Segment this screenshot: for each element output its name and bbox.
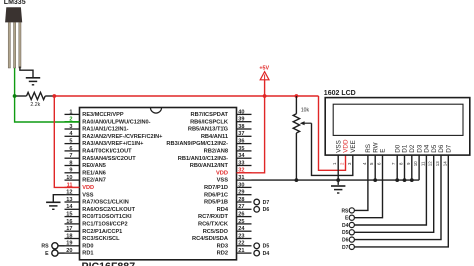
svg-text:8: 8 bbox=[69, 160, 72, 166]
svg-text:+5V: +5V bbox=[259, 66, 269, 72]
svg-text:RA3/AN3/VREF+/C1IN+: RA3/AN3/VREF+/C1IN+ bbox=[82, 141, 144, 147]
svg-text:VDD: VDD bbox=[216, 170, 228, 176]
svg-text:39: 39 bbox=[238, 117, 244, 123]
svg-text:RC6/TX/CK: RC6/TX/CK bbox=[198, 222, 229, 228]
svg-text:1602 LCD: 1602 LCD bbox=[324, 90, 356, 97]
svg-text:RB7/ICSPDAT: RB7/ICSPDAT bbox=[191, 112, 229, 118]
svg-text:28: 28 bbox=[238, 197, 244, 203]
svg-text:VSS: VSS bbox=[217, 178, 229, 184]
svg-text:D6: D6 bbox=[438, 144, 445, 153]
svg-text:12: 12 bbox=[66, 190, 72, 196]
svg-text:36: 36 bbox=[238, 139, 244, 145]
svg-text:14: 14 bbox=[66, 204, 73, 210]
svg-text:RD1: RD1 bbox=[82, 251, 93, 257]
svg-text:D6: D6 bbox=[263, 207, 270, 213]
svg-text:D4: D4 bbox=[342, 223, 349, 229]
svg-text:13: 13 bbox=[435, 161, 440, 166]
svg-text:1: 1 bbox=[69, 109, 72, 115]
svg-text:RB3/AN9/PGM/C12IN2-: RB3/AN9/PGM/C12IN2- bbox=[166, 141, 228, 147]
svg-text:RS: RS bbox=[365, 144, 372, 153]
svg-text:RB0/AN12/INT: RB0/AN12/INT bbox=[190, 163, 229, 169]
svg-text:27: 27 bbox=[238, 204, 244, 210]
svg-text:D7: D7 bbox=[446, 144, 453, 153]
svg-text:PIC16F887: PIC16F887 bbox=[82, 261, 136, 266]
svg-text:19: 19 bbox=[66, 241, 72, 247]
svg-text:9: 9 bbox=[69, 168, 72, 174]
svg-text:31: 31 bbox=[238, 175, 244, 181]
svg-text:22: 22 bbox=[238, 241, 244, 247]
svg-text:D5: D5 bbox=[263, 244, 270, 250]
svg-text:20: 20 bbox=[66, 248, 72, 254]
svg-text:D6: D6 bbox=[342, 238, 349, 244]
svg-text:D5: D5 bbox=[431, 144, 438, 153]
svg-text:D4: D4 bbox=[424, 144, 431, 153]
svg-text:VSS: VSS bbox=[82, 192, 93, 198]
svg-text:RC2/P1A/CCP1: RC2/P1A/CCP1 bbox=[82, 229, 122, 235]
svg-text:D5: D5 bbox=[342, 230, 349, 236]
svg-text:D2: D2 bbox=[409, 144, 416, 153]
svg-text:21: 21 bbox=[238, 248, 244, 254]
svg-text:D0: D0 bbox=[394, 144, 401, 153]
svg-text:11: 11 bbox=[67, 182, 73, 188]
svg-text:RE0/AN5: RE0/AN5 bbox=[82, 163, 106, 169]
svg-text:38: 38 bbox=[238, 124, 244, 130]
svg-text:RA5/AN4/SS/C2OUT: RA5/AN4/SS/C2OUT bbox=[82, 156, 136, 162]
svg-text:2: 2 bbox=[69, 117, 72, 123]
svg-text:RA2/AN2/VREF-/CVREF/C2IN+: RA2/AN2/VREF-/CVREF/C2IN+ bbox=[82, 134, 163, 140]
svg-text:RC3/SCK/SCL: RC3/SCK/SCL bbox=[82, 236, 120, 242]
svg-text:VEE: VEE bbox=[350, 140, 357, 153]
svg-text:D3: D3 bbox=[416, 144, 423, 153]
svg-text:15: 15 bbox=[66, 212, 72, 218]
svg-text:29: 29 bbox=[238, 190, 244, 196]
svg-text:10k: 10k bbox=[301, 108, 310, 114]
svg-text:34: 34 bbox=[238, 153, 245, 159]
svg-text:40: 40 bbox=[238, 109, 244, 115]
svg-text:RC0/T1OSO/T1CKI: RC0/T1OSO/T1CKI bbox=[82, 214, 132, 220]
svg-text:D7: D7 bbox=[263, 200, 270, 206]
svg-text:30: 30 bbox=[238, 182, 244, 188]
svg-text:RW: RW bbox=[372, 142, 379, 152]
svg-text:12: 12 bbox=[428, 161, 433, 166]
svg-text:37: 37 bbox=[238, 131, 244, 137]
svg-text:RD6/P1C: RD6/P1C bbox=[204, 192, 228, 198]
svg-text:VDD: VDD bbox=[82, 185, 94, 191]
svg-text:7: 7 bbox=[69, 153, 72, 159]
svg-text:13: 13 bbox=[66, 197, 72, 203]
svg-text:23: 23 bbox=[238, 233, 244, 239]
svg-text:RS: RS bbox=[41, 244, 49, 250]
svg-text:RD4: RD4 bbox=[217, 207, 229, 213]
svg-text:RD7/P1D: RD7/P1D bbox=[204, 185, 228, 191]
svg-text:24: 24 bbox=[238, 226, 245, 232]
svg-text:16: 16 bbox=[66, 219, 72, 225]
svg-text:17: 17 bbox=[66, 226, 72, 232]
svg-text:VSS: VSS bbox=[335, 140, 342, 153]
svg-text:14: 14 bbox=[442, 161, 447, 166]
svg-text:RD3: RD3 bbox=[217, 243, 228, 249]
svg-text:RC5/SDO: RC5/SDO bbox=[203, 229, 229, 235]
svg-text:E: E bbox=[45, 251, 49, 257]
svg-text:RA6/OSC2/CLKOUT: RA6/OSC2/CLKOUT bbox=[82, 207, 135, 213]
svg-text:RA4/T0CKI/C1OUT: RA4/T0CKI/C1OUT bbox=[82, 149, 132, 155]
svg-text:RB6/ICSPCLK: RB6/ICSPCLK bbox=[190, 119, 229, 125]
svg-text:5: 5 bbox=[69, 139, 72, 145]
svg-text:RC7/RX/DT: RC7/RX/DT bbox=[198, 214, 229, 220]
svg-text:11: 11 bbox=[420, 161, 425, 166]
svg-text:RA0/AN0/ULPWU/C12IN0-: RA0/AN0/ULPWU/C12IN0- bbox=[82, 119, 150, 125]
svg-text:32: 32 bbox=[238, 168, 244, 174]
svg-text:10: 10 bbox=[413, 161, 418, 166]
svg-text:E: E bbox=[380, 149, 387, 153]
svg-text:RS: RS bbox=[341, 208, 349, 214]
svg-text:D7: D7 bbox=[342, 245, 349, 251]
svg-text:RA7/OSC1/CLKIN: RA7/OSC1/CLKIN bbox=[82, 200, 129, 206]
svg-text:2.2k: 2.2k bbox=[30, 102, 40, 108]
svg-text:VDD: VDD bbox=[343, 139, 350, 153]
svg-text:RC4/SDI/SDA: RC4/SDI/SDA bbox=[192, 236, 228, 242]
svg-text:LM335: LM335 bbox=[4, 0, 26, 6]
svg-text:RE2/AN7: RE2/AN7 bbox=[82, 178, 106, 184]
svg-text:RD2: RD2 bbox=[217, 251, 228, 257]
svg-text:6: 6 bbox=[69, 146, 72, 152]
svg-text:18: 18 bbox=[66, 233, 72, 239]
svg-text:RB5/AN13/T1G: RB5/AN13/T1G bbox=[188, 127, 229, 133]
svg-text:RB1/AN10/C12IN3-: RB1/AN10/C12IN3- bbox=[178, 156, 228, 162]
svg-text:D1: D1 bbox=[402, 144, 409, 153]
svg-text:RC1/T1OSI/CCP2: RC1/T1OSI/CCP2 bbox=[82, 222, 127, 228]
svg-text:RE1/AN6: RE1/AN6 bbox=[82, 170, 106, 176]
svg-text:25: 25 bbox=[238, 219, 244, 225]
svg-text:RB2/AN8: RB2/AN8 bbox=[204, 149, 228, 155]
svg-text:RA1/AN1/C12IN1-: RA1/AN1/C12IN1- bbox=[82, 127, 128, 133]
svg-text:RE3/MCLR/VPP: RE3/MCLR/VPP bbox=[82, 112, 124, 118]
svg-text:D4: D4 bbox=[263, 251, 270, 257]
svg-text:RD0: RD0 bbox=[82, 243, 93, 249]
svg-text:RB4/AN11: RB4/AN11 bbox=[201, 134, 228, 140]
svg-text:35: 35 bbox=[238, 146, 244, 152]
svg-text:RD5/P1B: RD5/P1B bbox=[204, 200, 228, 206]
svg-text:26: 26 bbox=[238, 212, 244, 218]
svg-text:33: 33 bbox=[238, 160, 244, 166]
svg-text:10: 10 bbox=[66, 175, 72, 181]
svg-text:3: 3 bbox=[69, 124, 72, 130]
